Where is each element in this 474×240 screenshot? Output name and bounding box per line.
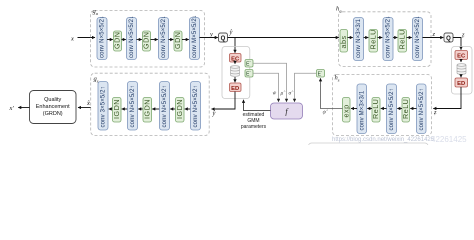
svg-text:EC: EC — [457, 54, 466, 60]
wire g_s to GRDN — [78, 107, 91, 109]
block conv2 g_a — [127, 16, 137, 60]
svg-text:ẓ: ẓ — [461, 32, 465, 39]
svg-text:IGDN: IGDN — [112, 99, 121, 119]
block exp h_s — [341, 98, 350, 123]
svg-text:abs: abs — [339, 35, 348, 48]
wire branch down from y-hat line to EC — [234, 38, 236, 53]
wire bitstream to ED — [234, 77, 236, 82]
svg-text:Enhancement: Enhancement — [36, 104, 70, 110]
wire ReLU2 to conv3 h_a — [407, 37, 412, 39]
bitstream cylinder (left) — [231, 66, 240, 77]
svg-text:Q: Q — [221, 36, 226, 42]
svg-text:ReLU: ReLU — [371, 99, 380, 119]
svg-text:EC: EC — [231, 56, 240, 62]
svg-text:IGDN: IGDN — [175, 99, 184, 119]
wire bitstream2 to ED2 — [460, 75, 462, 78]
wire EC to bitstream — [234, 62, 236, 64]
svg-text:Q: Q — [446, 36, 451, 42]
block conv right h_s — [417, 84, 427, 134]
wire conv2 to GDN2 — [137, 39, 142, 41]
container box around EC bitstream ED (left) — [222, 47, 250, 99]
entropy coder EC (right) — [455, 51, 468, 60]
block ReLU left h_s — [371, 98, 380, 123]
svg-text:y: y — [209, 31, 213, 38]
wire Q2 right and down to EC2 — [453, 38, 461, 50]
svg-text:conv N×5×5/2↑: conv N×5×5/2↑ — [193, 85, 199, 127]
dashed box h_a — [336, 6, 431, 67]
wire g_a to Q1 — [200, 37, 218, 39]
wire ED down and left to g_s — [212, 92, 236, 110]
dashed box g_a — [91, 8, 205, 67]
block conv1 h_a — [354, 18, 364, 61]
wire GRDN to x-prime — [18, 107, 29, 109]
quantizer Q2 — [444, 33, 453, 42]
wire EC2 to bitstream2 — [460, 60, 462, 63]
entropy decoder ED (left) — [230, 83, 242, 92]
svg-text:ŷ: ŷ — [212, 110, 216, 117]
block conv3 g_s — [160, 82, 170, 131]
wire conv4 to IGDN3 g_s — [185, 108, 191, 110]
block conv M h_s — [357, 84, 367, 134]
svg-text:x: x — [70, 36, 74, 43]
estimator E1 — [245, 60, 253, 68]
svg-text:conv N×5×5/2↑: conv N×5×5/2↑ — [389, 88, 395, 130]
wire ReLU1 to conv2 h_a — [378, 37, 383, 39]
svg-text:ReLU: ReLU — [401, 99, 410, 119]
block ReLU1 h_a — [368, 29, 377, 52]
svg-text:conv M×5×5/2↓: conv M×5×5/2↓ — [192, 15, 198, 58]
wire conv1 to GDN1 — [107, 39, 113, 41]
block abs h_a — [339, 30, 348, 53]
block conv4 g_a — [190, 15, 200, 59]
bitstream cylinder (right) — [457, 64, 466, 75]
block conv4 g_s (rightmost) — [191, 82, 201, 131]
estimator E2 — [245, 70, 253, 78]
wire ReLU left to conv M h_s — [367, 108, 372, 110]
svg-text:(GRDN): (GRDN) — [43, 111, 63, 117]
svg-text:ẓ: ẓ — [433, 109, 437, 116]
svg-text:42261425: 42261425 — [431, 135, 467, 144]
dashed box h_s — [333, 75, 432, 136]
svg-text:https://blog.csdn.net/weixin_4: https://blog.csdn.net/weixin_42261425 — [332, 137, 435, 143]
GMM parameter function f — [271, 103, 303, 119]
wire GDN1 to conv2 — [122, 39, 126, 41]
svg-text:ReLU: ReLU — [397, 29, 406, 49]
wire E2 to f (left input) — [253, 73, 279, 102]
svg-text:conv N×5×5/2↓: conv N×5×5/2↓ — [415, 16, 421, 58]
wire f to EC/ED container — [244, 100, 271, 111]
svg-text:GDN: GDN — [142, 32, 151, 49]
wire conv1 to ReLU1 h_a — [364, 37, 369, 39]
block IGDN3 g_s — [175, 98, 184, 123]
block ReLU2 h_a — [397, 29, 406, 52]
wire y-hat line from ED to g_s is above; dashed box g_s — [91, 73, 210, 135]
svg-text:conv N×5×5/2↓: conv N×5×5/2↓ — [129, 16, 135, 58]
block conv3 h_a — [413, 16, 423, 61]
wire exp to E3 — [321, 78, 343, 108]
entropy coder EC (left) — [230, 54, 242, 63]
wire E3 to f (right input) — [295, 73, 317, 102]
block GDN3 g_a — [173, 31, 182, 51]
wire h_a to Q2 — [423, 37, 444, 39]
wire GDN3 to conv4 — [182, 39, 189, 41]
wire x to g_a — [78, 37, 96, 39]
entropy decoder ED (right) — [455, 78, 468, 87]
block conv2 h_a — [383, 16, 393, 61]
svg-text:E´: E´ — [318, 72, 323, 78]
block conv2 g_s — [128, 82, 138, 131]
block GDN1 g_a — [113, 31, 122, 51]
wire GDN2 to conv3 — [151, 39, 158, 41]
svg-text:ŵ: ŵ — [273, 91, 277, 97]
svg-text:ŷ: ŷ — [229, 29, 233, 36]
block IGDN1 g_s — [112, 98, 121, 123]
block Quality Enhancement GRDN — [30, 91, 77, 124]
block IGDN2 g_s — [143, 98, 152, 123]
svg-text:conv M×3×3/1: conv M×3×3/1 — [360, 90, 366, 130]
block conv3 g_a — [159, 16, 169, 60]
container box around EC bitstream ED (right) — [452, 47, 473, 95]
block conv mid h_s — [387, 84, 397, 134]
block GDN2 g_a — [142, 31, 151, 51]
svg-text:ED: ED — [231, 86, 239, 92]
svg-text:ReLU: ReLU — [368, 29, 377, 49]
svg-text:z: z — [432, 31, 436, 38]
svg-text:parameters: parameters — [241, 124, 267, 130]
wire E1 to f (middle input) — [253, 63, 287, 102]
svg-text:x′: x′ — [9, 105, 15, 112]
svg-text:GDN: GDN — [173, 32, 182, 49]
svg-text:IGDN: IGDN — [143, 99, 152, 119]
estimator E3 — [317, 70, 325, 78]
svg-text:Quality: Quality — [44, 97, 61, 103]
block conv1 g_a — [97, 16, 107, 60]
wire conv2 to ReLU2 h_a — [393, 37, 397, 39]
svg-text:conv N×3×3/1: conv N×3×3/1 — [356, 18, 362, 58]
wire conv M to exp h_s — [351, 108, 357, 110]
svg-text:conv N×5×5/2↑: conv N×5×5/2↑ — [419, 88, 425, 130]
quantizer Q1 — [219, 33, 228, 42]
wire IGDN3 to conv3 g_s — [170, 108, 175, 110]
block ReLU right h_s — [401, 98, 410, 123]
wire Q1 to h_a (main horizontal) — [228, 37, 339, 39]
svg-text:E´: E´ — [246, 72, 251, 78]
svg-text:conv N×5×5/2↑: conv N×5×5/2↑ — [130, 85, 136, 127]
svg-text:ED: ED — [457, 81, 465, 87]
cut-off box bottom — [309, 143, 429, 153]
svg-text:conv N×5×5/2↓: conv N×5×5/2↓ — [386, 16, 392, 58]
wire conv right to ReLU right h_s — [410, 108, 416, 110]
wire IGDN1 to conv1 g_s — [109, 108, 113, 110]
svg-text:conv N×5×5/2↓: conv N×5×5/2↓ — [161, 16, 167, 58]
wire conv2 to IGDN1 g_s — [122, 108, 128, 110]
wire IGDN2 to conv2 g_s — [138, 108, 143, 110]
svg-text:E´: E´ — [246, 62, 251, 68]
wire ReLU right to conv mid h_s — [397, 108, 402, 110]
svg-text:exp: exp — [341, 104, 350, 117]
wire conv3 to GDN3 — [169, 39, 174, 41]
svg-text:conv 3×5×5/2↑: conv 3×5×5/2↑ — [101, 86, 107, 127]
svg-text:conv N×5×5/2↑: conv N×5×5/2↑ — [162, 85, 168, 127]
svg-text:conv N×5×5/2↓: conv N×5×5/2↓ — [100, 16, 106, 58]
wire conv mid to ReLU left h_s — [381, 108, 387, 110]
wire ED2 down and left to h_s — [433, 87, 461, 109]
label estimated GMM parameters — [241, 112, 267, 130]
svg-text:GDN: GDN — [113, 32, 122, 49]
svg-text:x̂: x̂ — [86, 100, 90, 107]
block conv1 g_s (leftmost) — [98, 82, 108, 131]
wire abs to conv1 h_a — [348, 37, 353, 39]
wire conv3 to IGDN2 g_s — [152, 108, 159, 110]
